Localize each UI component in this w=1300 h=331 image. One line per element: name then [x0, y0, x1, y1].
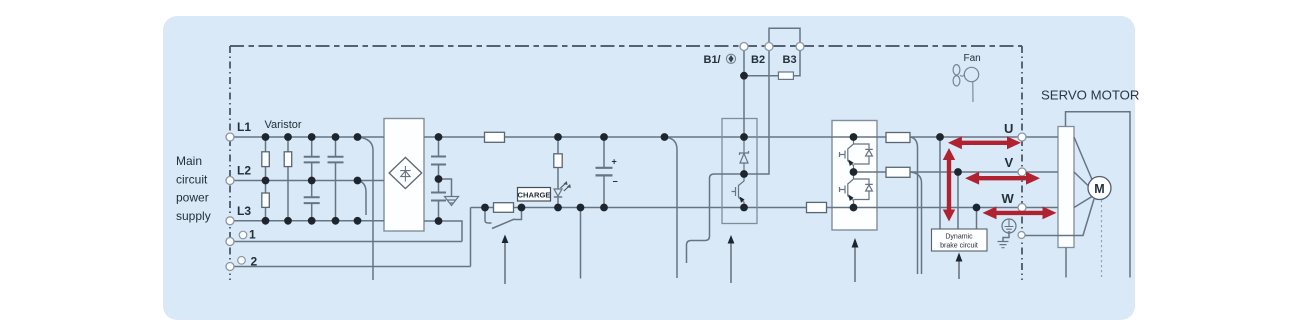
svg-text:B1/: B1/ [704, 54, 721, 66]
wire motor taps [1074, 137, 1092, 208]
dash-dot enclosure: right border [1021, 46, 1023, 280]
dash-dot enclosure: top border [230, 45, 1022, 47]
wire B1 to B3 internal resistor link [744, 51, 800, 76]
red arrow U bidirectional [948, 136, 1021, 149]
svg-text:B3: B3 [783, 54, 797, 66]
svg-text:2: 2 [251, 255, 258, 269]
svg-text:−: − [613, 177, 618, 187]
svg-text:Fan: Fan [964, 53, 981, 64]
wire B2-B3 external jumper [769, 28, 800, 42]
motor M1 [1088, 177, 1111, 200]
rectifier block outline [384, 119, 424, 232]
terminal 1 lug [239, 231, 247, 239]
wire varistor column 1 [265, 137, 267, 221]
wire encoder loop top [1066, 112, 1131, 278]
diode freewheel [854, 144, 873, 164]
zener diode D1 [740, 137, 749, 174]
resistor R5 charge indicator [554, 154, 562, 168]
motor frame terminal [1018, 232, 1025, 239]
wire B1 drop [743, 51, 745, 138]
symbol circled plus [726, 54, 735, 63]
wire DB tap V [957, 172, 959, 229]
relay actuate arrow [504, 243, 506, 285]
chassis ground [445, 197, 459, 206]
transistor Q1 regen IGBT [732, 174, 745, 208]
fuse F1 on P bus [485, 132, 505, 142]
terminal B1 [740, 43, 748, 51]
svg-text:B2: B2 [751, 54, 765, 66]
svg-text:power: power [176, 191, 209, 205]
CHARGE label box [518, 188, 551, 202]
terminal U [1018, 133, 1026, 141]
wire gate lead B [687, 174, 745, 263]
terminal V [1018, 168, 1026, 176]
red arrow W bidirectional [983, 207, 1057, 220]
red arrow vertical bidirectional [943, 148, 955, 222]
svg-text:circuit: circuit [176, 173, 208, 187]
varistor R3 [262, 193, 270, 207]
wire terminal-2 lead [234, 266, 471, 268]
regen block outline [722, 119, 757, 224]
wire sense drop from L2 node [358, 181, 367, 216]
transistor IGBT cell [840, 137, 854, 172]
svg-text:L2: L2 [237, 164, 251, 178]
wire DB tap W [976, 208, 978, 230]
regen actuate arrow [730, 243, 732, 283]
svg-text:SERVO MOTOR: SERVO MOTOR [1041, 88, 1139, 103]
capacitor C2 plates [328, 157, 344, 163]
varistor R1 [262, 152, 270, 167]
svg-text:L1: L1 [237, 120, 251, 134]
svg-text:Dynamic: Dynamic [945, 234, 973, 241]
svg-text:CHARGE: CHARGE [518, 191, 551, 200]
inverter actuate arrow [854, 247, 856, 282]
svg-text:L3: L3 [237, 204, 251, 218]
wire earth tail [1003, 233, 1009, 241]
wire frame to motor [1025, 199, 1094, 236]
DB actuate arrow [958, 261, 960, 279]
wire CT sense U [910, 137, 918, 274]
svg-text:M: M [1094, 182, 1104, 196]
wire capacitor column 3 [311, 137, 313, 221]
terminal 2 lug [238, 257, 246, 265]
terminal B3 [796, 43, 804, 51]
fuse F4 V phase [886, 167, 910, 177]
protective earth circle [1002, 219, 1016, 233]
varistor R2 [284, 152, 292, 167]
wire sense drop from L1 node [358, 137, 374, 280]
fuse F2 on N bus [807, 202, 827, 212]
svg-text:W: W [1002, 191, 1015, 206]
rectifier inner diode [400, 166, 410, 182]
capacitor C3 plates [304, 197, 320, 203]
wire varistor column 2 (L1-L3) [287, 137, 289, 221]
capacitor C4 plates [431, 157, 446, 165]
fan icon [953, 65, 960, 75]
capacitor C1 plates [304, 157, 320, 163]
wire CT sense V [910, 172, 922, 274]
wire terminal-1 lead [234, 241, 462, 243]
fuse F3 U phase [886, 133, 910, 143]
relay contact MC leads [485, 208, 522, 224]
wire L2 row [234, 180, 384, 182]
svg-text:+: + [612, 157, 617, 167]
wire sense drop N bus [580, 208, 582, 279]
wire L1 row [234, 136, 384, 138]
dynamic brake circuit box [932, 229, 988, 251]
dash-dot enclosure: left border [229, 46, 231, 280]
wire winding bottom drop [1065, 248, 1067, 278]
relay contact blade [492, 219, 515, 229]
svg-text:V: V [1005, 155, 1014, 170]
rectifier diamond U0 [389, 157, 422, 188]
svg-text:Varistor: Varistor [265, 119, 302, 131]
svg-text:1: 1 [249, 228, 256, 242]
diode freewheel [854, 179, 873, 200]
LED charge lamp [554, 189, 562, 196]
wire L3 row [234, 220, 384, 222]
wire terminal-2 riser to N bus [470, 208, 472, 267]
resistor R4 inrush on N bus [494, 203, 514, 213]
resistor R6 internal regen [778, 72, 793, 79]
wire DB tap U [939, 137, 941, 229]
wire snubber capacitor chain [438, 137, 440, 221]
svg-text:U: U [1004, 121, 1013, 136]
terminal B2 [765, 43, 773, 51]
earth symbol [998, 242, 1009, 248]
terminal L1 [226, 133, 234, 141]
capacitor C6 DC bus [603, 137, 605, 208]
wire B2 drop to junction [744, 51, 769, 175]
wire charge branch [557, 137, 559, 208]
svg-text:Main: Main [176, 154, 202, 168]
terminal W [1018, 204, 1026, 212]
light blue panel [163, 16, 1135, 320]
wire N bus / W phase [471, 207, 1059, 209]
svg-text:supply: supply [176, 209, 211, 223]
inverter IGBT module block [832, 121, 877, 231]
wire gate lead A from P bus [665, 137, 678, 278]
motor winding block [1058, 127, 1074, 248]
wire N-bus jog to terminal 1 [424, 221, 462, 242]
capacitor C5 plates [431, 193, 446, 201]
red arrow V bidirectional [965, 172, 1040, 185]
wire V phase [854, 171, 1059, 173]
wire P bus [424, 136, 1058, 138]
wire encoder dotted [1101, 200, 1103, 277]
svg-text:brake circuit: brake circuit [940, 242, 978, 249]
wire midpoint earth branch [439, 179, 452, 196]
transistor IGBT cell [840, 172, 854, 208]
wire capacitor column 4 (L1-L3) [335, 137, 337, 221]
